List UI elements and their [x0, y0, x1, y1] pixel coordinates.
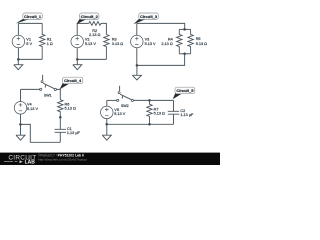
wire SW1 to R6 — [56, 89, 60, 99]
ground circuit5 — [102, 124, 111, 140]
resistor R2 — [89, 22, 101, 26]
svg-text:SW2: SW2 — [121, 104, 129, 108]
node circuit3 gnd — [136, 64, 139, 67]
wire circuit4 bottom — [21, 124, 61, 142]
svg-text:1 Ω: 1 Ω — [47, 42, 53, 46]
svg-text:1.13 µF: 1.13 µF — [67, 131, 81, 135]
svg-text:5.13 V: 5.13 V — [114, 112, 125, 116]
wire circuit2 bottom — [77, 58, 106, 60]
ground circuit3 — [132, 65, 141, 80]
voltage source V1 — [12, 35, 25, 48]
svg-text:V4: V4 — [27, 102, 32, 106]
node circuit1 gnd — [17, 58, 20, 61]
node circuit4 gnd — [19, 123, 22, 126]
wire circuit3 parallel bottom bar — [179, 53, 190, 55]
resistor R1 — [40, 23, 45, 59]
callout Circuit_2 — [76, 19, 87, 24]
wire circuit3 parallel top bar — [179, 28, 190, 30]
wire circuit3 bottom — [137, 54, 185, 66]
svg-text:Circuit_2: Circuit_2 — [81, 14, 99, 19]
wire circuit5 bottom — [107, 123, 174, 125]
voltage source V5 — [101, 106, 114, 119]
svg-text:5.13 V: 5.13 V — [145, 42, 156, 46]
node R7 bottom junction — [148, 123, 151, 126]
ground circuit4 — [16, 124, 25, 140]
svg-text:Circuit_5: Circuit_5 — [176, 88, 194, 93]
node circuit2 gnd — [76, 58, 79, 61]
svg-text:R5: R5 — [196, 37, 201, 41]
ground circuit2 — [73, 59, 82, 69]
svg-text:Circuit_4: Circuit_4 — [64, 78, 82, 83]
voltage source V3 — [131, 35, 144, 48]
node circuit5 gnd — [105, 123, 108, 126]
svg-text:5 V: 5 V — [26, 42, 32, 46]
svg-text:5.13 Ω: 5.13 Ω — [65, 107, 76, 111]
wire circuit1 bottom — [18, 58, 42, 60]
svg-text:5.13 Ω: 5.13 Ω — [196, 42, 207, 46]
svg-text:5.13 V: 5.13 V — [27, 107, 38, 111]
resistor R6 — [58, 100, 63, 118]
wire circuit2 top-left — [77, 22, 89, 24]
wire circuit5 top-left — [107, 99, 117, 101]
wire circuit3 top — [137, 23, 185, 29]
wire SW2 to R7 — [133, 99, 173, 101]
capacitor C1 — [55, 117, 66, 142]
voltage source V4 — [14, 102, 27, 115]
ground circuit1 — [14, 59, 23, 69]
node circuit3 bottom junction — [183, 53, 186, 56]
banner CircuitLab — [0, 153, 220, 165]
node circuit3 top junction — [183, 28, 186, 31]
capacitor C2 — [168, 100, 179, 124]
svg-text:5.13 V: 5.13 V — [85, 42, 96, 46]
callout Circuit_4 — [60, 83, 70, 89]
node R6-C1 junction — [59, 116, 62, 119]
wire circuit2 top-right — [101, 23, 106, 34]
wire circuit4 top-left — [21, 88, 40, 90]
switch SW1 — [40, 88, 42, 90]
svg-text:2.13 Ω: 2.13 Ω — [89, 33, 100, 37]
resistor R5 — [188, 29, 193, 53]
callout Circuit_1 — [16, 19, 30, 24]
svg-text:http://circuitlab.com/c/35zfr1: http://circuitlab.com/c/35zfr17kpdqd — [38, 158, 87, 162]
callout Circuit_3 — [134, 19, 147, 24]
svg-text:3.13 Ω: 3.13 Ω — [112, 42, 123, 46]
svg-text:Circuit_3: Circuit_3 — [140, 14, 158, 19]
svg-text:2.13 Ω: 2.13 Ω — [161, 42, 172, 46]
callout Circuit_5 — [173, 93, 183, 99]
svg-text:SW1: SW1 — [44, 93, 52, 97]
wire circuit1 top — [18, 22, 42, 24]
svg-text:5.13 Ω: 5.13 Ω — [154, 112, 165, 116]
resistor R3 — [104, 35, 109, 60]
resistor R7 — [147, 100, 152, 124]
node R7 top junction — [148, 99, 151, 102]
voltage source V2 — [71, 35, 84, 48]
switch SW2 — [117, 99, 119, 101]
svg-text:1.13 µF: 1.13 µF — [180, 113, 194, 117]
svg-text:LAB: LAB — [25, 160, 36, 165]
svg-text:Circuit_1: Circuit_1 — [24, 14, 42, 19]
resistor R4 — [177, 29, 182, 53]
